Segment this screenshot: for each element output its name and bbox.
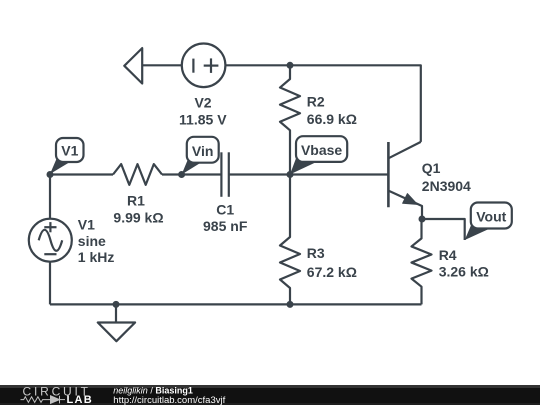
svg-text:67.2 kΩ: 67.2 kΩ	[307, 264, 357, 280]
svg-text:66.9 kΩ: 66.9 kΩ	[307, 111, 357, 127]
svg-text:V1: V1	[61, 142, 78, 158]
transistor Q1	[388, 142, 422, 219]
resistor R2	[280, 65, 300, 174]
svg-text:R4: R4	[439, 247, 457, 263]
svg-text:R3: R3	[307, 245, 325, 261]
wire main rail V1 node to R1	[50, 173, 113, 175]
svg-text:Q1: Q1	[422, 160, 441, 176]
junction node R2 top	[287, 62, 294, 69]
svg-text:LAB: LAB	[67, 394, 94, 405]
wire R2 top node to collector corner	[290, 65, 421, 142]
svg-text:11.85 V: 11.85 V	[179, 111, 227, 127]
svg-text:R2: R2	[307, 93, 325, 109]
junction node V1 left	[47, 171, 54, 178]
node flag Vin	[182, 137, 219, 175]
ground stub	[115, 304, 117, 322]
svg-text:3.26 kΩ: 3.26 kΩ	[439, 264, 489, 280]
resistor R3	[280, 175, 300, 305]
wire V1 node down to V1 source	[49, 175, 51, 219]
resistor R1	[113, 164, 162, 185]
junction node Vin	[178, 171, 185, 178]
wire V1 source to bottom rail	[49, 262, 51, 305]
node flag V1	[50, 138, 84, 174]
svg-text:Vin: Vin	[192, 143, 214, 159]
svg-text:2N3904: 2N3904	[422, 178, 471, 194]
resistor R4	[412, 219, 432, 304]
junction node Vbase	[287, 171, 294, 178]
ground (rotated, V2 negative terminal)	[124, 48, 142, 83]
wire C1 to Vbase node to Q1 base	[229, 173, 389, 175]
junction node emitter	[419, 216, 426, 223]
svg-text:1 kHz: 1 kHz	[78, 249, 115, 265]
svg-text:neilglikin / Biasing1: neilglikin / Biasing1	[113, 385, 193, 395]
logo resistor-diode glyph	[21, 396, 66, 404]
svg-text:http://circuitlab.com/cfa3vjf: http://circuitlab.com/cfa3vjf	[113, 395, 225, 405]
svg-text:9.99 kΩ: 9.99 kΩ	[113, 210, 163, 226]
svg-text:R1: R1	[127, 193, 145, 209]
node flag Vbase	[290, 136, 347, 174]
svg-text:V1: V1	[78, 217, 95, 233]
voltage source V2	[182, 44, 226, 88]
node flag Vout	[465, 203, 512, 241]
svg-text:Vout: Vout	[476, 209, 506, 225]
wire ground to V2	[142, 64, 182, 66]
voltage source V1	[29, 219, 72, 262]
ground	[98, 323, 135, 342]
footer bar	[0, 385, 540, 405]
svg-text:985 nF: 985 nF	[203, 218, 248, 234]
svg-text:sine: sine	[78, 233, 106, 249]
wire emitter node to Vout flag	[422, 219, 465, 240]
svg-text:Vbase: Vbase	[301, 142, 342, 158]
wire R1 to Vin node to C1	[162, 173, 221, 175]
junction node ground	[113, 301, 120, 308]
junction node R3 bottom	[287, 301, 294, 308]
capacitor C1	[221, 152, 228, 197]
svg-text:V2: V2	[194, 95, 211, 111]
wire V2 to node at R2 top	[225, 64, 290, 66]
bottom rail wire	[50, 303, 422, 305]
svg-text:C1: C1	[216, 202, 234, 218]
